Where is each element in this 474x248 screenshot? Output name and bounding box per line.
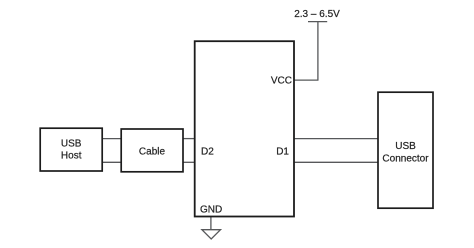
wire: D1 top (device to connector) [294, 138, 378, 140]
svg-text:Connector: Connector [382, 153, 429, 164]
block: USB Host [40, 128, 102, 171]
power rail bar [308, 21, 327, 23]
svg-text:GND: GND [200, 204, 222, 215]
svg-text:VCC: VCC [271, 76, 292, 87]
wire: GND stub [210, 217, 212, 231]
block: USB Connector [378, 92, 433, 208]
svg-text:USB: USB [395, 141, 416, 152]
wire: D2 bottom (Cable to device) [183, 161, 195, 163]
block: USB device [195, 41, 294, 216]
wire: VCC stub [294, 79, 319, 81]
svg-text:D2: D2 [201, 146, 214, 157]
svg-text:Host: Host [61, 151, 82, 162]
wire: D2 top (Cable to device) [183, 138, 195, 140]
block: Cable [121, 129, 183, 172]
wire: D2 bottom (Host to Cable) [103, 161, 121, 163]
wire: power rail vertical drop [317, 22, 319, 81]
svg-text:USB: USB [61, 139, 82, 150]
svg-text:Cable: Cable [139, 146, 166, 157]
svg-text:D1: D1 [276, 146, 289, 157]
svg-text:2.3 – 6.5V: 2.3 – 6.5V [294, 9, 340, 20]
wire: D1 bottom (device to connector) [294, 161, 378, 163]
wire: D2 top (Host to Cable) [103, 138, 121, 140]
ground [202, 230, 221, 239]
